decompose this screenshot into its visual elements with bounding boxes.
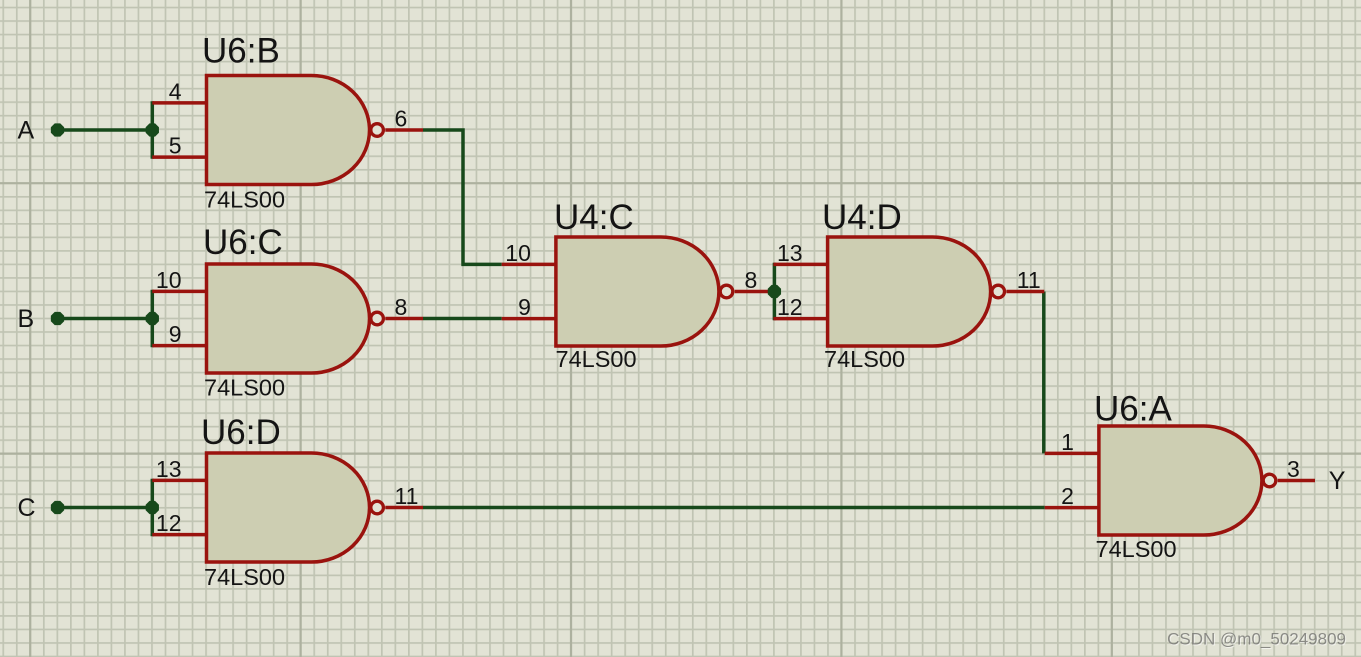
svg-text:2: 2 xyxy=(1061,483,1074,509)
svg-text:12: 12 xyxy=(156,510,182,536)
svg-text:4: 4 xyxy=(169,78,182,104)
svg-text:13: 13 xyxy=(777,240,803,266)
svg-text:B: B xyxy=(18,305,35,333)
svg-text:5: 5 xyxy=(169,133,182,159)
svg-text:U4:D: U4:D xyxy=(822,198,902,237)
svg-text:1: 1 xyxy=(1061,429,1074,455)
svg-text:U6:D: U6:D xyxy=(201,413,281,452)
svg-text:8: 8 xyxy=(745,267,758,293)
svg-text:9: 9 xyxy=(518,294,531,320)
svg-text:74LS00: 74LS00 xyxy=(824,346,905,372)
svg-text:U4:C: U4:C xyxy=(554,198,634,237)
svg-text:8: 8 xyxy=(395,294,408,320)
svg-text:U6:C: U6:C xyxy=(203,223,283,262)
svg-text:11: 11 xyxy=(395,483,419,509)
svg-text:12: 12 xyxy=(777,294,803,320)
svg-text:C: C xyxy=(18,494,36,522)
svg-text:3: 3 xyxy=(1287,456,1300,482)
svg-text:74LS00: 74LS00 xyxy=(556,346,637,372)
svg-text:13: 13 xyxy=(156,456,182,482)
svg-text:6: 6 xyxy=(395,106,408,132)
svg-text:74LS00: 74LS00 xyxy=(204,375,285,401)
svg-text:74LS00: 74LS00 xyxy=(1096,536,1177,562)
svg-text:U6:B: U6:B xyxy=(202,32,280,71)
svg-text:CSDN @m0_50249809: CSDN @m0_50249809 xyxy=(1167,630,1346,649)
svg-text:74LS00: 74LS00 xyxy=(204,564,285,590)
svg-text:11: 11 xyxy=(1017,267,1041,293)
svg-text:10: 10 xyxy=(505,240,531,266)
svg-text:A: A xyxy=(18,117,35,145)
svg-text:Y: Y xyxy=(1329,467,1346,495)
svg-text:74LS00: 74LS00 xyxy=(204,187,285,213)
svg-text:10: 10 xyxy=(156,267,182,293)
svg-text:U6:A: U6:A xyxy=(1094,390,1172,429)
svg-text:9: 9 xyxy=(169,321,182,347)
